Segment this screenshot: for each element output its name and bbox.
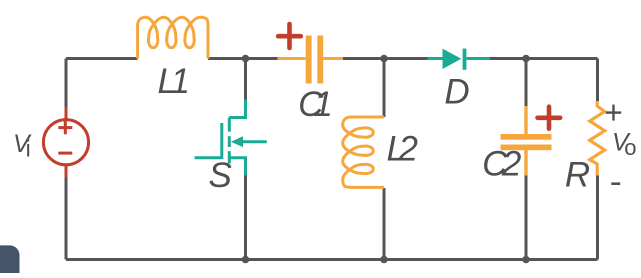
svg-text:S: S	[209, 156, 232, 195]
svg-text:L1: L1	[158, 62, 188, 101]
svg-text:C2: C2	[482, 145, 521, 184]
svg-text:i: i	[26, 136, 31, 162]
svg-text:D: D	[444, 73, 469, 112]
svg-text:o: o	[624, 135, 636, 160]
svg-text:R: R	[565, 156, 590, 195]
